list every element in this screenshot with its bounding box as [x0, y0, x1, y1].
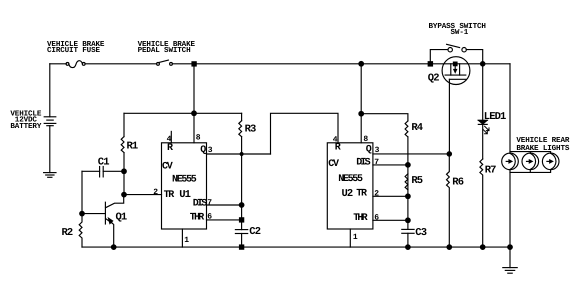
node junction R3 bottom on output wire — [240, 153, 243, 156]
svg-text:R2: R2 — [62, 227, 73, 239]
wire U1 output up and over to U2 pin4 — [271, 113, 339, 154]
resistor R7 — [480, 159, 483, 247]
svg-text:PEDAL SWITCH: PEDAL SWITCH — [138, 46, 191, 55]
wire top rail right corner down to lamps — [509, 64, 511, 153]
svg-text:BATTERY: BATTERY — [10, 123, 41, 131]
svg-text:1: 1 — [353, 233, 358, 242]
wire rail to LED1 — [482, 64, 484, 121]
node junction U2 pin8 / R4 branch — [359, 111, 364, 116]
switch SW-1 bypass switch — [430, 44, 482, 64]
node junction emitter on ground rail — [111, 245, 116, 250]
wire U2 pin3 output to gate node — [373, 153, 449, 155]
wire bottom ground rail — [82, 246, 510, 248]
svg-text:NE555: NE555 — [172, 175, 197, 186]
node junction SW-1 right on rail — [481, 62, 485, 66]
svg-text:LED1: LED1 — [484, 111, 506, 123]
svg-text:THR: THR — [190, 213, 204, 224]
wire U1 DIS pin7 — [207, 204, 242, 206]
node junction R7 ground — [480, 245, 485, 250]
node junction DIS7 U2 — [406, 163, 411, 168]
resistor R3 — [239, 121, 242, 137]
svg-text:Q1: Q1 — [116, 211, 127, 223]
svg-text:3: 3 — [208, 146, 213, 155]
label U2 pin numbers — [333, 135, 380, 242]
wire U2 pin1 stub — [349, 229, 351, 247]
node junction pin8 / VCC distribution — [192, 111, 197, 116]
switch vehicle brake pedal switch — [157, 60, 173, 65]
wire lamp top bus — [510, 152, 551, 154]
node junction C2 ground — [240, 245, 244, 249]
wire Q1 base lead — [82, 213, 105, 215]
wire TR pin2 of U1 — [124, 194, 162, 196]
node junction R6 ground — [447, 245, 452, 250]
wire C1 left lead — [82, 170, 100, 172]
lamp L1 brake light — [502, 153, 519, 170]
node junction base/R2 — [80, 211, 85, 216]
svg-text:DIS: DIS — [193, 199, 207, 210]
node junction THR6 U2 — [406, 218, 411, 223]
svg-text:BRAKE LIGHTS: BRAKE LIGHTS — [516, 144, 569, 153]
wire top rail between fuse and pedal switch — [85, 63, 157, 65]
node junction lamps ground rail — [508, 245, 513, 250]
svg-text:R5: R5 — [411, 175, 422, 187]
svg-text:3: 3 — [375, 146, 380, 155]
node junction DIS7 — [239, 203, 244, 208]
wire VCC to R4 — [361, 114, 408, 121]
wire battery to ground — [49, 126, 51, 173]
svg-text:4: 4 — [333, 135, 338, 144]
wire U2 pin8 vertical from top rail — [360, 64, 362, 143]
svg-text:8: 8 — [363, 135, 368, 144]
ground battery ground — [44, 173, 56, 178]
node junction TR2 U2 — [406, 194, 411, 199]
svg-text:TR: TR — [164, 190, 175, 201]
svg-text:2: 2 — [153, 188, 158, 197]
wire LED1 to R7 — [482, 124, 484, 159]
label U2 pin names — [328, 143, 372, 225]
svg-text:SW-1: SW-1 — [451, 28, 469, 37]
wire top rail left segment — [50, 63, 66, 65]
wire C1 left vertical to base node — [81, 171, 83, 213]
svg-text:TR: TR — [356, 189, 367, 200]
svg-text:R4: R4 — [411, 122, 422, 134]
resistor R5 — [405, 174, 408, 190]
wire R3 bottom through DIS THR to C2 — [241, 137, 243, 230]
node junction gate node R6 — [447, 152, 451, 156]
wire C3 to ground rail — [407, 233, 409, 247]
node junction C1 right — [122, 169, 127, 174]
wire U2 THR pin6 — [373, 219, 408, 221]
wire top rail right segment — [172, 63, 510, 65]
node junction C3 ground — [406, 245, 411, 250]
svg-text:1: 1 — [184, 236, 189, 245]
wire R1 bottom to TR node — [123, 153, 125, 195]
svg-text:2: 2 — [374, 189, 379, 198]
wire R3 top lead — [241, 113, 243, 120]
svg-text:THR: THR — [353, 213, 367, 224]
capacitor C3 — [402, 229, 414, 233]
wire lamp bottom bus — [510, 170, 551, 173]
node junction SW-1 left on rail — [428, 62, 432, 66]
LED LED1 — [478, 120, 489, 133]
svg-text:6: 6 — [207, 213, 212, 222]
svg-text:8: 8 — [196, 134, 201, 143]
wire battery feed vertical — [49, 64, 51, 117]
svg-text:Q2: Q2 — [428, 73, 439, 85]
transistor Q1 — [105, 195, 123, 248]
wire lamp2 top stub — [529, 152, 531, 154]
wire U1 pin4 stub — [170, 131, 172, 142]
wire U1 pin8 vertical from top rail — [193, 64, 195, 143]
svg-text:U1: U1 — [179, 189, 190, 201]
wire R4 bottom vertical chain — [407, 137, 409, 230]
svg-text:7: 7 — [374, 158, 379, 167]
lamp L3 brake light — [542, 153, 559, 170]
svg-text:CV: CV — [328, 159, 339, 170]
wire R1 top lead — [123, 113, 125, 136]
svg-text:CV: CV — [162, 162, 173, 173]
capacitor C2 — [235, 230, 247, 234]
op-amp U1 NE555 timer box — [162, 143, 207, 229]
svg-text:CIRCUIT FUSE: CIRCUIT FUSE — [47, 46, 100, 55]
svg-text:NE555: NE555 — [338, 174, 363, 185]
wire C1 right lead — [103, 170, 124, 172]
node junction top rail U2 pin8 — [359, 62, 364, 67]
svg-text:4: 4 — [167, 135, 172, 144]
svg-text:C2: C2 — [249, 226, 260, 238]
label U1 pin names — [162, 143, 207, 224]
wire gate vertical to Q2 — [448, 79, 450, 154]
transistor Q2 MOSFET — [442, 57, 470, 85]
label U1 pin numbers — [153, 134, 213, 245]
fuse F1 vehicle brake circuit fuse — [66, 61, 85, 68]
resistor R2 — [79, 214, 82, 247]
wire lamps down to ground rail — [509, 172, 511, 247]
node junction TR/collector — [122, 192, 127, 197]
svg-text:R7: R7 — [485, 164, 496, 176]
node junction pedal/U1 pin8 — [192, 62, 196, 66]
svg-text:R6: R6 — [452, 177, 463, 189]
resistor R1 — [121, 137, 124, 153]
svg-text:R1: R1 — [127, 141, 138, 153]
capacitor C1 — [100, 167, 104, 177]
svg-text:U2: U2 — [342, 188, 353, 200]
svg-text:VEHICLE REAR: VEHICLE REAR — [516, 136, 569, 145]
ground main ground symbol — [503, 268, 517, 274]
battery B1 vehicle 12VDC battery — [44, 117, 56, 126]
resistor R4 — [405, 121, 408, 137]
wire lamp2 bottom stub — [529, 170, 531, 173]
node junction THR6 — [240, 218, 244, 222]
svg-text:DIS: DIS — [356, 158, 370, 169]
svg-text:C3: C3 — [415, 227, 426, 239]
wire C2 to ground rail — [241, 234, 243, 248]
svg-text:7: 7 — [207, 198, 212, 207]
op-amp U2 NE555 timer box — [327, 143, 373, 229]
wire ground stem bottom right — [509, 247, 511, 268]
lamp L2 brake light — [522, 153, 539, 170]
wire U1 pin1 stub — [181, 229, 183, 247]
wire U1 THR pin6 — [207, 219, 242, 221]
wire U2 DIS pin7 — [373, 164, 408, 166]
svg-text:C1: C1 — [98, 157, 109, 169]
wire VCC distribution horizontal R1 to R3 — [124, 112, 242, 114]
svg-text:R3: R3 — [245, 124, 256, 136]
svg-text:6: 6 — [374, 214, 379, 223]
wire U1 pin3 output — [207, 153, 271, 155]
resistor R6 — [447, 154, 450, 247]
wire U2 TR pin2 — [373, 195, 408, 197]
